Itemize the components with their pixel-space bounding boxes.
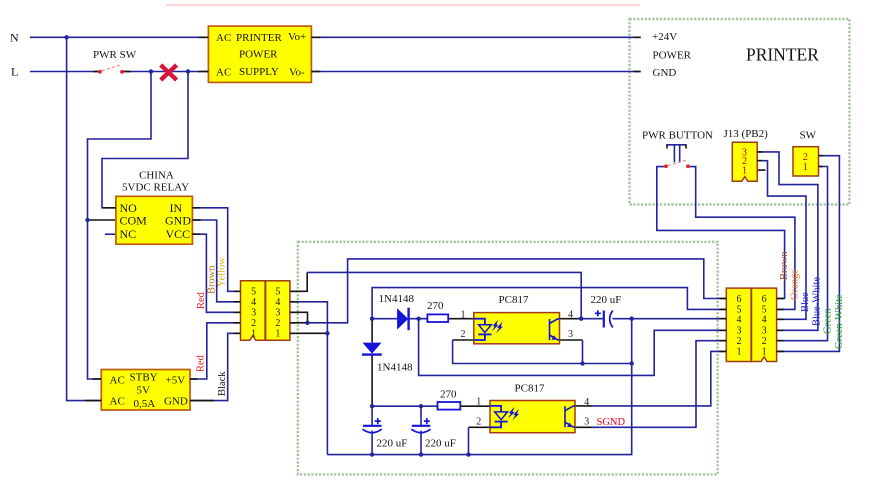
wire lower row node to resistor R2: [372, 405, 437, 407]
connector P1 6-pin left half: [726, 288, 751, 361]
wire node B drop to P1 pin3: [419, 319, 727, 376]
svg-text:4: 4: [737, 315, 742, 326]
wire N line: [30, 36, 641, 38]
connector SW: [793, 147, 819, 176]
svg-text:5VDC RELAY: 5VDC RELAY: [122, 182, 189, 194]
svg-text:5: 5: [275, 287, 280, 298]
svg-text:1: 1: [762, 347, 767, 358]
svg-text:3: 3: [584, 417, 589, 428]
wire STBY +5V to J1 pin2: [190, 323, 241, 379]
printer wire end stubs: [634, 36, 641, 38]
capacitor C1 220uF: [591, 294, 622, 327]
svg-text:1: 1: [803, 162, 808, 173]
connector P1 6-pin right half: [752, 288, 777, 361]
svg-text:STBY: STBY: [130, 372, 158, 384]
wire STBY GND to J1 pin1: [190, 333, 241, 400]
wire main row node A to diode D1: [372, 318, 397, 320]
wire J13 pin3 to P1R pin3: [757, 152, 818, 330]
svg-text:1: 1: [476, 397, 481, 408]
svg-text:1: 1: [251, 329, 256, 340]
svg-text:5V: 5V: [137, 385, 151, 397]
connector J2 pin stubs right: [290, 291, 297, 333]
connector J1 5-pin left half: [241, 281, 266, 341]
svg-text:2: 2: [476, 417, 481, 428]
svg-text:Green-White: Green-White: [834, 294, 845, 349]
wire PWR BUTTON right contact to P1R pin5: [688, 167, 795, 310]
interface enclosure box: [298, 242, 718, 475]
wire relay IN to J1 pin5: [192, 208, 240, 291]
wire tie node to ground riser: [583, 363, 632, 365]
wire resistor R1 to opto U1 pin1: [448, 318, 474, 320]
wire relay COM stub: [88, 219, 116, 221]
svg-text:AC: AC: [216, 32, 231, 44]
svg-text:AC: AC: [110, 396, 125, 408]
opto-isolator U1 PC817: [461, 294, 574, 344]
svg-text:Blue: Blue: [800, 292, 811, 312]
svg-text:1: 1: [742, 166, 747, 177]
wire PWR BUTTON left contact to P1R pin6: [657, 167, 785, 299]
wire J2 pin1 to rail drop junction: [290, 332, 328, 334]
svg-text:220 uF: 220 uF: [591, 294, 622, 306]
connector J2 5-pin right half: [266, 281, 290, 341]
svg-text:NC: NC: [120, 227, 137, 241]
wire relay VCC to J1 pin3: [192, 234, 240, 312]
wire resistor R2 to opto U2 pin1: [460, 405, 490, 407]
printer block labels: [652, 31, 819, 141]
svg-text:+5V: +5V: [166, 375, 186, 387]
svg-text:2: 2: [737, 336, 742, 347]
svg-text:4: 4: [251, 297, 256, 308]
svg-text:POWER: POWER: [239, 49, 278, 61]
diode D1 1N4148 horizontal: [379, 293, 415, 330]
wire opto U1 pin3 to tie node: [560, 339, 583, 341]
svg-text:4: 4: [568, 310, 573, 321]
svg-text:Vo-: Vo-: [289, 67, 305, 79]
svg-text:Brown: Brown: [207, 265, 218, 294]
wire diode D1 to resistor R1: [408, 318, 427, 320]
svg-text:3: 3: [251, 308, 256, 319]
wire J2 pin3 drop to node: [290, 312, 308, 323]
svg-text:SGND: SGND: [597, 417, 626, 428]
svg-text:4: 4: [762, 315, 767, 326]
svg-text:1N4148: 1N4148: [377, 361, 413, 373]
wire capacitor C3 drop: [371, 406, 373, 425]
svg-text:6: 6: [737, 294, 742, 305]
resistor R1 270: [427, 300, 448, 322]
svg-text:Orange: Orange: [790, 269, 801, 300]
svg-text:GND: GND: [165, 214, 191, 228]
svg-text:Red: Red: [196, 354, 207, 372]
wire L drop2 to relay NO: [102, 72, 188, 208]
svg-text:220 uF: 220 uF: [425, 438, 456, 450]
wire relay NC stub: [105, 233, 116, 235]
diode D2 1N4148 vertical: [362, 343, 413, 374]
wire opto U2 pin4 to P1 pin1: [575, 405, 592, 407]
svg-text:270: 270: [427, 300, 444, 312]
svg-text:220 uF: 220 uF: [377, 438, 408, 450]
svg-text:CHINA: CHINA: [139, 170, 174, 182]
svg-text:N: N: [10, 31, 19, 45]
faint top margin line: [166, 4, 640, 6]
svg-text:Vo+: Vo+: [288, 31, 306, 43]
wire J2 pin2 to connector P1 pin6: [290, 322, 308, 324]
svg-text:Brown: Brown: [779, 251, 790, 280]
black pin stubs on supplies and relay: [85, 37, 823, 400]
wire N drop to STBY AC bottom: [67, 37, 102, 400]
svg-text:3: 3: [275, 308, 280, 319]
svg-text:GND: GND: [164, 396, 188, 408]
connector P1 pin stubs left: [719, 299, 726, 352]
svg-text:+24V: +24V: [652, 31, 677, 43]
svg-text:6: 6: [762, 294, 767, 305]
svg-text:VCC: VCC: [166, 227, 191, 241]
capacitor C2 220uF: [411, 418, 456, 449]
wire opto U1 pin4 to capacitor C1: [560, 318, 582, 320]
svg-text:PWR BUTTON: PWR BUTTON: [642, 129, 713, 141]
wire J2 pin5 riser to opto U1 pin4: [290, 272, 307, 291]
svg-text:POWER: POWER: [653, 50, 692, 62]
svg-text:COM: COM: [120, 214, 148, 228]
switch PWR SW: [93, 49, 137, 74]
wire J13 pin1 stub: [757, 169, 765, 171]
svg-text:PC817: PC817: [499, 294, 529, 306]
wire J2 pin4 drop to bottom rail: [290, 302, 328, 455]
svg-text:SUPPLY: SUPPLY: [239, 66, 279, 78]
svg-text:PC817: PC817: [515, 383, 545, 395]
wire SW pin1 to P1R pin2: [777, 167, 828, 341]
svg-text:2: 2: [762, 336, 767, 347]
svg-text:270: 270: [440, 389, 457, 401]
svg-text:3: 3: [568, 329, 573, 340]
wire L line left of switch: [30, 71, 99, 73]
resistor R2 270: [438, 389, 461, 410]
opto-isolator U2 PC817: [476, 383, 589, 433]
connector J1 pin stubs left: [234, 291, 241, 333]
svg-text:3: 3: [737, 326, 742, 337]
svg-text:1N4148: 1N4148: [379, 293, 415, 305]
wire relay GND to J1 pin4: [192, 220, 240, 302]
svg-text:Red: Red: [196, 291, 207, 309]
svg-text:GND: GND: [653, 67, 677, 79]
X cut mark: [161, 65, 177, 80]
svg-text:2: 2: [461, 329, 466, 340]
connector P1 pin stubs right: [777, 299, 784, 352]
wire L drop1 to STBY AC top: [88, 72, 152, 380]
svg-text:Black: Black: [217, 371, 228, 396]
svg-text:Green: Green: [823, 308, 834, 334]
svg-text:1: 1: [461, 309, 466, 320]
power supply PS1 PRINTER POWER SUPPLY: [208, 26, 311, 82]
svg-text:4: 4: [584, 397, 589, 408]
wire SW pin2 to P1R pin1: [777, 156, 840, 352]
svg-text:PWR SW: PWR SW: [93, 49, 137, 61]
svg-text:AC: AC: [110, 374, 125, 386]
svg-text:3: 3: [762, 326, 767, 337]
svg-text:4: 4: [275, 297, 280, 308]
relay K1 CHINA 5VDC RELAY: [116, 170, 192, 245]
svg-text:1: 1: [737, 347, 742, 358]
wire opto U1 pin2 to tie node: [453, 339, 474, 341]
wire opto U2 pin3 to P1 pin2 SGND: [575, 426, 592, 428]
svg-text:PRINTER: PRINTER: [746, 45, 819, 65]
wire node A riser to P1 pin5: [372, 288, 726, 319]
wire opto U2 pin2 to rail: [469, 426, 491, 428]
svg-text:L: L: [11, 65, 18, 79]
svg-text:AC: AC: [216, 66, 231, 78]
connector J13 (PB2): [732, 142, 757, 181]
svg-text:0,5A: 0,5A: [134, 398, 156, 410]
wire L line right of switch: [123, 71, 641, 73]
svg-text:5: 5: [251, 287, 256, 298]
svg-text:2: 2: [251, 318, 256, 329]
svg-text:Yellow: Yellow: [217, 257, 228, 287]
printer enclosure box: [630, 19, 850, 205]
wire J13 pin2 to P1R pin4: [757, 161, 806, 320]
push button PWR BUTTON: [642, 129, 713, 168]
svg-text:Blue-White: Blue-White: [812, 277, 823, 326]
svg-text:SW: SW: [800, 129, 817, 141]
svg-text:PRINTER: PRINTER: [236, 32, 283, 44]
wire bottom rail and right riser: [327, 319, 631, 455]
svg-text:J13 (PB2): J13 (PB2): [724, 128, 769, 140]
wire capacitor C1 to P1 pin4: [613, 318, 727, 320]
svg-text:2: 2: [275, 318, 280, 329]
power supply PS2 STBY 5V 0.5A: [101, 370, 190, 411]
svg-text:1: 1: [275, 329, 280, 340]
wire capacitor C2 drop: [420, 406, 422, 425]
capacitor C3 220uF: [363, 418, 408, 449]
wire node A down through diode D2 to lower row: [371, 320, 373, 343]
